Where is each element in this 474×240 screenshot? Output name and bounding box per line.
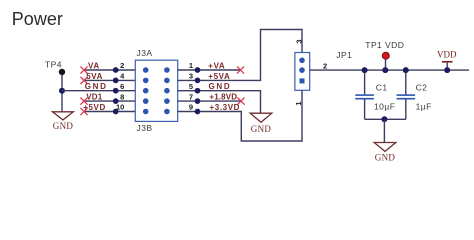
capacitor C1 bbox=[355, 70, 395, 119]
pin number 1 bbox=[189, 61, 193, 70]
wire net +5VA row2 right (loop to JP1 pin3) bbox=[178, 30, 302, 81]
svg-text:8: 8 bbox=[120, 92, 124, 101]
junction GND right bbox=[195, 88, 201, 94]
junction +5VA right bbox=[195, 78, 201, 84]
pin number 8 bbox=[120, 92, 124, 101]
net label +5VA bbox=[208, 72, 230, 81]
junction GND left bbox=[113, 88, 119, 94]
wire net +VA row1 right bbox=[178, 69, 241, 71]
pin number 2 bbox=[323, 62, 327, 71]
svg-text:C2: C2 bbox=[416, 83, 428, 93]
connector pins (left column) bbox=[143, 67, 149, 114]
net label +1.8VD bbox=[209, 93, 237, 102]
pin number 5 bbox=[189, 82, 193, 91]
svg-text:GND: GND bbox=[53, 121, 74, 131]
svg-text:10: 10 bbox=[116, 103, 124, 112]
net label 5VA bbox=[86, 72, 103, 81]
svg-text:GND: GND bbox=[85, 82, 108, 91]
no-connect X +5VD bbox=[80, 108, 87, 115]
svg-text:+5VD: +5VD bbox=[83, 103, 106, 112]
pin number 6 bbox=[120, 82, 124, 91]
ground GND (bottom right) bbox=[374, 143, 396, 163]
pin number 10 bbox=[116, 103, 124, 112]
no-connect X VA bbox=[80, 66, 87, 73]
JP1 pin 2 (middle circle) bbox=[299, 67, 305, 73]
wire net GND row3 right bbox=[178, 91, 261, 113]
junction capacitor bottom bbox=[381, 116, 387, 122]
junction +3.3VD right bbox=[195, 109, 201, 115]
junction VDD bbox=[444, 67, 450, 73]
svg-text:VA: VA bbox=[88, 61, 100, 70]
svg-text:+5VA: +5VA bbox=[208, 72, 230, 81]
wire net GND row3 left bbox=[62, 90, 135, 92]
connector J3A/J3B body bbox=[135, 48, 177, 133]
svg-text:+VA: +VA bbox=[208, 61, 225, 70]
svg-text:VD1: VD1 bbox=[86, 93, 103, 102]
pin number 4 bbox=[120, 72, 125, 81]
svg-text:J3A: J3A bbox=[137, 48, 153, 58]
svg-text:1: 1 bbox=[189, 61, 193, 70]
JP1 pin 1 (bottom square) bbox=[300, 78, 305, 83]
wire TP4 to ground bbox=[61, 75, 63, 112]
connector pins (right column) bbox=[164, 67, 170, 114]
svg-text:GND: GND bbox=[209, 82, 232, 91]
net label +3.3VD bbox=[210, 103, 241, 112]
capacitor C2 bbox=[397, 70, 432, 119]
svg-text:3: 3 bbox=[294, 39, 303, 43]
header JP1 body bbox=[295, 50, 352, 90]
junction VD1 left bbox=[113, 98, 119, 104]
no-connect X +1.8VD bbox=[237, 98, 244, 105]
junction +5VD left bbox=[113, 109, 119, 115]
no-connect X VD1 bbox=[80, 98, 87, 105]
pin number 1 (rotated) bbox=[294, 101, 303, 105]
svg-text:7: 7 bbox=[189, 92, 193, 101]
wire capacitor bottoms bbox=[365, 118, 406, 120]
wire to bottom ground bbox=[383, 119, 385, 142]
svg-text:JP1: JP1 bbox=[336, 50, 352, 60]
net label GND left bbox=[85, 82, 108, 91]
svg-text:GND: GND bbox=[251, 124, 272, 134]
junction +1.8VD right bbox=[195, 98, 201, 104]
JP1 pin 3 (top circle) bbox=[299, 58, 305, 64]
svg-text:10µF: 10µF bbox=[374, 102, 395, 112]
svg-text:1: 1 bbox=[294, 101, 303, 105]
wire VDD rail bbox=[310, 69, 469, 71]
net label VD1 bbox=[86, 93, 103, 102]
svg-text:9: 9 bbox=[189, 103, 193, 112]
pin number 3 bbox=[189, 72, 193, 81]
svg-text:1µF: 1µF bbox=[416, 102, 432, 112]
net label VA bbox=[88, 61, 100, 70]
svg-text:6: 6 bbox=[120, 82, 124, 91]
junction C1 top bbox=[362, 67, 368, 73]
ground GND (middle) bbox=[250, 113, 272, 134]
net label +VA bbox=[208, 61, 225, 70]
svg-text:+3.3VD: +3.3VD bbox=[210, 103, 241, 112]
svg-text:5VA: 5VA bbox=[86, 72, 103, 81]
svg-text:TP4: TP4 bbox=[45, 59, 62, 69]
net label GND right bbox=[209, 82, 232, 91]
junction 5VA left bbox=[113, 78, 119, 84]
ground GND (under TP4) bbox=[53, 112, 74, 131]
pin number 9 bbox=[189, 103, 193, 112]
wire net +3.3VD row5 right (loop to JP1 pin1) bbox=[178, 90, 302, 141]
wire net 5VA row2 left bbox=[84, 79, 135, 81]
title Power bbox=[12, 9, 63, 29]
pin number 3 (rotated) bbox=[294, 39, 303, 43]
wire TP1 stub bbox=[385, 59, 387, 70]
no-connect X +VA bbox=[237, 66, 244, 73]
svg-text:VDD: VDD bbox=[437, 50, 457, 60]
junction TP4 / GND net bbox=[59, 88, 65, 94]
test point TP1 bbox=[365, 40, 404, 59]
svg-text:J3B: J3B bbox=[137, 123, 153, 133]
junction +VA right bbox=[195, 67, 201, 73]
wire net +1.8VD row4 right bbox=[178, 100, 241, 102]
svg-text:2: 2 bbox=[120, 61, 124, 70]
svg-text:3: 3 bbox=[189, 72, 193, 81]
svg-text:Power: Power bbox=[12, 9, 63, 29]
wire net +5VD row5 left bbox=[84, 111, 135, 113]
svg-text:5: 5 bbox=[189, 82, 193, 91]
net label +5VD bbox=[83, 103, 106, 112]
svg-text:+1.8VD: +1.8VD bbox=[209, 93, 237, 102]
power port VDD bbox=[437, 50, 457, 71]
svg-text:GND: GND bbox=[375, 152, 396, 162]
test point TP4 bbox=[45, 59, 65, 75]
wire net VD1 row4 left bbox=[84, 100, 135, 102]
junction TP1 bbox=[382, 67, 388, 73]
junction C2 top bbox=[403, 67, 409, 73]
no-connect X 5VA bbox=[80, 77, 87, 84]
wire net VA row1 left bbox=[84, 69, 135, 71]
svg-text:TP1 VDD: TP1 VDD bbox=[365, 40, 404, 50]
svg-text:C1: C1 bbox=[376, 83, 388, 93]
svg-text:2: 2 bbox=[323, 62, 327, 71]
pin number 7 bbox=[189, 92, 193, 101]
junction VA left bbox=[113, 67, 119, 73]
pin number 2 bbox=[120, 61, 124, 70]
